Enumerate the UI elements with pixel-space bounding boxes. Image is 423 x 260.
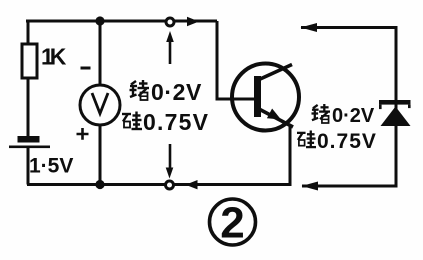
svg-text:0.75V: 0.75V	[143, 109, 209, 135]
svg-text:0.75V: 0.75V	[317, 130, 377, 153]
svg-text:1·5V: 1·5V	[29, 155, 73, 178]
svg-text:1K: 1K	[41, 44, 67, 70]
svg-text:2: 2	[220, 199, 244, 248]
svg-text:0·2V: 0·2V	[332, 105, 375, 127]
svg-text:0·2V: 0·2V	[151, 79, 202, 105]
